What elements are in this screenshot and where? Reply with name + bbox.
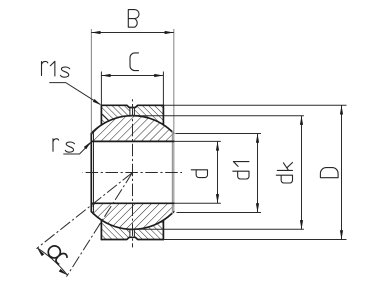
label dk (rotated) — [276, 163, 292, 184]
d1 extension lines — [175, 133, 261, 135]
label r1s — [42, 61, 48, 75]
outer ring corner chamfer line — [102, 114, 109, 121]
inner ring left chamfer edge — [93, 131, 95, 214]
outer ring faces — [101, 105, 163, 239]
alpha dimension arc — [37, 248, 67, 275]
d1 dimension line — [257, 134, 259, 213]
inner ring (ball) hatched section — [91, 116, 174, 230]
label B — [128, 10, 139, 28]
outer ring top section — [101, 105, 163, 125]
lubrication hole walls top — [130, 108, 135, 116]
B dimension line — [91, 32, 174, 34]
d extension lines — [174, 140, 221, 142]
bore bottom line — [91, 202, 174, 204]
C dimension line — [101, 75, 163, 77]
lubrication groove bottom — [127, 237, 138, 240]
B extension lines — [90, 29, 92, 134]
inner ring right side face (grey) — [173, 134, 175, 212]
label d (rotated) — [191, 170, 207, 178]
C extension lines — [100, 72, 102, 106]
bore top line — [91, 140, 174, 142]
lubrication groove top — [127, 104, 138, 107]
sphere outline bottom arc — [94, 214, 172, 230]
lubrication hole walls bottom — [130, 229, 135, 237]
sphere chamfers — [91, 131, 174, 214]
alpha arc arrows — [37, 248, 44, 256]
rs leader — [63, 143, 90, 154]
label alpha (rotated) — [46, 243, 68, 266]
lubrication hole bottom — [130, 229, 135, 237]
sphere outline top arc — [94, 116, 172, 132]
inner ring right chamfer edge (grey) — [171, 131, 173, 214]
lubrication hole top — [130, 108, 135, 116]
D dimension line — [341, 105, 343, 239]
label D (rotated) — [320, 168, 338, 178]
horizontal centerline — [83, 172, 182, 174]
D extension lines — [163, 104, 346, 106]
outer ring bottom section — [101, 220, 163, 239]
vertical centerline — [132, 98, 134, 247]
alpha line lower — [67, 173, 133, 277]
label d1 (rotated) — [233, 162, 249, 179]
dk dimension line — [301, 116, 303, 230]
alpha line upper — [37, 173, 133, 249]
label C — [130, 53, 139, 71]
outer ring bottom edge with groove — [101, 237, 163, 239]
r1s leader — [49, 83, 100, 105]
label rs — [53, 139, 59, 152]
d dimension line — [217, 141, 219, 203]
dk extension lines — [131, 115, 304, 117]
outer ring top edge with groove — [101, 105, 163, 107]
inner ring left side face — [90, 134, 92, 212]
